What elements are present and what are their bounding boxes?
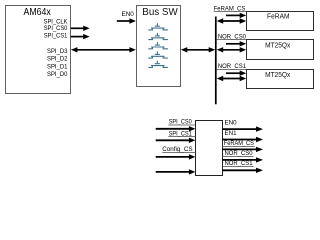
svg-text:EN1: EN1 [225,130,238,137]
svg-text:Bus SW: Bus SW [142,7,178,18]
wire FeRAM_CS label underline [214,11,247,13]
block U1 AM64x [6,6,71,94]
block U2 Bus SW [137,6,181,87]
wire SPI_CS0 stub arrow from AM64x [71,26,90,31]
wire SPI_CS0 arrow into decoder [156,126,196,131]
wire NOR_CS0 arrow into MT25Qx [226,41,246,46]
wire NOR_CS1 arrow into MT25Qx [226,71,246,76]
svg-text:NOR_CS1: NOR_CS1 [218,63,247,70]
wire NOR_CS1 label underline [223,166,254,168]
wire SPI data bus Bus SW to vertical bus (bidirectional) [181,47,215,52]
wire FeRAM_CS output arrow [222,147,263,152]
wire EN1 output arrow [222,137,263,142]
wire NOR_CS0 label underline [216,39,246,41]
svg-text:MT25Qx: MT25Qx [265,70,291,79]
switch S5 (pass gate symbol) [148,61,168,68]
wire FeRAM_CS arrow into FeRAM [226,13,246,18]
block U3 FeRAM [247,12,314,31]
wire Config_CS label underline [162,152,195,154]
svg-text:SPI_D3: SPI_D3 [47,48,68,55]
svg-text:SPI_CS0: SPI_CS0 [44,25,68,32]
wire EN0 arrow into Bus SW [117,18,136,23]
switch S2 (pass gate symbol) [148,33,168,40]
wire SPI data bus AM64x to Bus SW (bidirectional) [71,47,136,52]
svg-text:FeRAM_CS: FeRAM_CS [224,140,254,147]
wire SPI_CS1 stub arrow from AM64x [71,34,90,39]
svg-text:MT25Qx: MT25Qx [265,40,291,49]
svg-text:SPI_D1: SPI_D1 [47,63,68,70]
block U4 MT25Qx [247,40,314,60]
wire SPI data to FeRAM (bidirectional) [217,18,247,23]
wire SPI data to MT25Qx1 (bidirectional) [217,47,247,52]
switch S4 (pass gate symbol) [148,51,168,58]
svg-text:FeRAM: FeRAM [267,12,290,21]
block U6 CS decoder [196,121,223,176]
svg-text:SPI_CS1: SPI_CS1 [44,32,68,39]
wire SPI_CS0 label underline [168,124,195,126]
svg-text:NOR_CS0: NOR_CS0 [225,150,254,157]
switch S3 (pass gate symbol) [148,42,168,49]
switch S1 (pass gate symbol) [148,23,168,30]
wire unlabeled arrow into decoder [156,169,196,174]
wire SPI_CS1 arrow into decoder [156,138,196,143]
wire NOR_CS1 output arrow [222,168,263,173]
wire EN0 output arrow [222,126,263,131]
wire SPI data to MT25Qx2 (bidirectional) [217,76,247,81]
svg-text:SPI_D2: SPI_D2 [47,56,68,63]
wire FeRAM_CS label underline [223,146,255,148]
wire NOR_CS0 label underline [223,156,254,158]
wire SPI_CS1 label underline [168,136,195,138]
wire vertical SPI data bus [215,17,217,105]
wire NOR_CS1 label underline [216,69,246,71]
svg-text:SPI_CS0: SPI_CS0 [169,119,193,126]
svg-text:AM64x: AM64x [24,7,51,18]
block U5 MT25Qx [247,70,314,89]
svg-text:EN0: EN0 [225,119,238,126]
svg-text:SPI_D0: SPI_D0 [47,71,68,78]
svg-text:EN0: EN0 [122,11,135,18]
wire NOR_CS0 output arrow [222,157,263,162]
wire Config_CS arrow into decoder [156,154,196,159]
